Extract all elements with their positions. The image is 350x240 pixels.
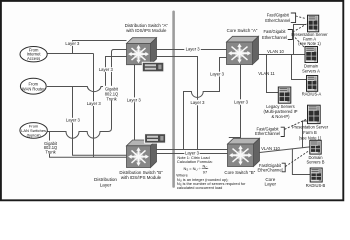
svg-text:with IDS/IPS Module: with IDS/IPS Module [121,175,162,180]
svg-text:Layer 3: Layer 3 [186,47,201,52]
label distribution layer [94,177,117,187]
svg-text:Trunk: Trunk [106,97,117,102]
label layer3 on Vb [87,101,102,106]
label layer3 on distA-distB [126,97,141,102]
wire internet access to corner [47,53,94,55]
bracket 3 [281,127,285,136]
wire W2 distA down to coreB wire [156,57,198,150]
label layer3 on coreA-coreB [234,99,249,105]
label fast/gigabit etherchannel 3 [255,127,280,137]
wire down to RADIUS-A [292,55,307,80]
svg-text:calculated concurrent load: calculated concurrent load [177,185,222,190]
wire up to presentation A [294,25,307,55]
svg-text:Layer 3: Layer 3 [65,41,80,46]
bracket 1 [291,13,296,23]
svg-text:(see Note 1): (see Note 1) [298,41,321,46]
svg-text:Access: Access [27,56,40,61]
label fast/gigabit etherchannel 4 [257,163,282,172]
wire WAN router to dist A [47,57,127,92]
wire trunk from LAN switches to dist A [47,50,127,139]
label gigabit trunk [103,86,120,102]
svg-text:Trunk: Trunk [45,149,56,154]
brackets for etherchannel labels [281,13,296,172]
wire double distB to coreB lower [156,153,228,155]
label distribution switch A [125,23,169,33]
svg-text:VLAN 11: VLAN 11 [258,71,275,76]
wire coreA to coreB [229,65,241,138]
layer partition divider [172,12,175,187]
label presentation server farm A [291,32,328,46]
label fast/gigabit etherchannel 1 [265,13,290,24]
server icon domain A [305,47,318,63]
svg-text:Layer 3: Layer 3 [66,118,81,123]
svg-text:Layer 3: Layer 3 [234,100,249,105]
label layer3 top-left [65,41,80,46]
dashed b2 to presentation A [293,24,307,32]
svg-text:Layer 3: Layer 3 [127,97,142,102]
svg-text:RADIUS-A: RADIUS-A [302,92,322,97]
svg-text:Fast/Gigabit: Fast/Gigabit [267,13,290,18]
dashed b3 to presentation B [285,119,308,130]
wire VLAN110 up to presentation B [303,121,308,148]
ellipse From LAN Switches [20,123,47,139]
bracket 4 [282,163,286,172]
label core layer [265,177,277,187]
core switch B icon [228,138,260,166]
ellipse From Internet Access [20,47,47,62]
label presentation server farm B [292,125,329,141]
label layer3 on WAN riser [98,67,113,72]
label legacy servers [264,104,298,119]
svg-text:Fast/Gigabit: Fast/Gigabit [263,29,286,34]
wire VLAN110 coreB to DomainB [259,147,310,153]
svg-text:Layer 3: Layer 3 [99,67,114,72]
IDS module A [142,62,164,72]
svg-text:Core Switch “A”: Core Switch “A” [227,28,258,33]
ellipse From WAN Router [20,78,46,94]
label gigabit trunk lower-left [44,141,58,154]
wire Vb internet down to distB [93,54,95,158]
svg-text:with IDS/IPS Module: with IDS/IPS Module [126,28,167,33]
svg-text:VLAN 110: VLAN 110 [261,146,280,151]
svg-text:Distribution: Distribution [94,177,117,182]
label domain servers A [302,64,320,74]
svg-text:NS = NU ÷: NS = NU ÷ [184,166,202,172]
svg-text:Servers B: Servers B [307,160,325,165]
svg-text:(typical): (typical) [27,132,42,137]
label layer3 on W2 [191,100,206,106]
wire W1 distA to coreA layer3 [156,49,227,51]
dashed etherchannel callouts [285,16,309,167]
svg-text:EtherChannel: EtherChannel [257,167,282,172]
svg-text:Presentation Server: Presentation Server [292,125,329,130]
server icon presentation A [308,15,319,32]
server icon legacy [278,87,291,103]
wire W3 distB riser to coreA [184,58,227,150]
svg-text:(see Note 1): (see Note 1) [299,136,322,141]
svg-text:Farm B: Farm B [303,130,317,135]
wire down to RADIUS-B [292,149,310,175]
svg-text:Layer: Layer [265,181,277,186]
server icon RADIUS-A [307,76,318,92]
svg-text:VLAN 10: VLAN 10 [267,49,284,54]
svg-text:Core Switch “B”: Core Switch “B” [224,170,255,175]
distribution switch A icon [127,38,157,65]
server icon presentation B [308,105,321,123]
wire VLAN11 to legacy [267,55,279,93]
svg-text:EtherChannel: EtherChannel [265,18,290,23]
server icon domain B [310,140,321,154]
distribution switch B icon [127,140,157,168]
svg-text:Calculation Formula:: Calculation Formula: [177,159,213,164]
svg-text:Layer 3: Layer 3 [210,72,225,77]
svg-text:Layer: Layer [100,182,112,187]
wire distA to distB vertical [134,65,136,141]
note 1 text block [176,155,246,190]
wire riser internet to distA top port [73,41,127,54]
wire Va WAN down to distB [73,87,127,156]
IDS module B [145,134,166,143]
bracket 2 [288,30,293,40]
label distribution switch B [119,170,163,180]
label layer3 on Va low [66,118,81,123]
svg-text:RADIUS-B: RADIUS-B [306,183,326,188]
server icon RADIUS-B [310,168,322,182]
label domain servers B [307,155,325,165]
wire trunk label tail into distB left [50,132,127,157]
wire double distB to coreB upper [156,149,228,151]
dashed b4 to domain B [285,151,308,167]
svg-text:EtherChannel: EtherChannel [255,131,280,136]
label fast/gigabit etherchannel 2 [262,29,287,40]
dashed b1 to presentation A [296,16,306,19]
wire VLAN10 coreA to Domain A [255,54,305,56]
svg-text:EtherChannel: EtherChannel [262,35,287,40]
svg-text:Layer 3: Layer 3 [87,101,102,106]
label layer3 on riser213 [210,72,225,77]
dashed b2 to domain A [293,35,304,47]
core switch A icon [227,36,259,64]
label layer3 on W1 [184,47,201,52]
label layer3 inline double wire [184,151,199,156]
svg-text:WAN Router: WAN Router [22,86,45,91]
svg-text:Servers A: Servers A [302,68,320,73]
svg-text:& Non-IP): & Non-IP) [272,114,291,119]
svg-text:Layer 3: Layer 3 [191,100,206,105]
svg-text:97: 97 [203,169,207,174]
